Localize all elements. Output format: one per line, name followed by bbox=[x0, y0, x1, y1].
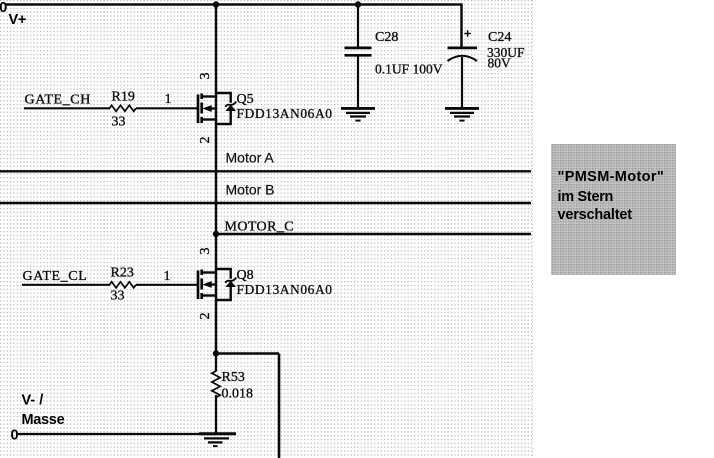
net label GATE_CL bbox=[23, 269, 88, 284]
svg-text:MOTOR_C: MOTOR_C bbox=[225, 219, 294, 234]
svg-text:Motor B: Motor B bbox=[226, 182, 275, 198]
label R53 bbox=[222, 370, 245, 385]
pin 2 label (Q8 source) bbox=[198, 313, 213, 320]
wire: junction to right branch bbox=[216, 352, 279, 354]
svg-text:Q8: Q8 bbox=[237, 268, 254, 283]
transistor Q5 bbox=[198, 93, 236, 124]
value 33 (R19) bbox=[112, 115, 126, 130]
wire: R23 to Q8 gate bbox=[136, 284, 197, 286]
svg-text:R23: R23 bbox=[111, 266, 134, 281]
ground (below C28) bbox=[341, 108, 375, 120]
transistor Q8 bbox=[198, 269, 236, 300]
svg-text:FDD13AN06A0: FDD13AN06A0 bbox=[237, 282, 333, 297]
svg-text:3: 3 bbox=[198, 73, 213, 80]
wire: GATE_CL to R23 bbox=[22, 284, 110, 286]
svg-text:V- /: V- / bbox=[22, 393, 44, 409]
svg-text:R53: R53 bbox=[222, 370, 245, 385]
refdes C28 bbox=[375, 30, 398, 45]
ground (below C24) bbox=[445, 108, 479, 120]
plus mark (C24 polarity) bbox=[464, 30, 471, 37]
capacitor C24 (polarized) bbox=[448, 3, 478, 107]
svg-text:V+: V+ bbox=[9, 12, 27, 28]
net label V- / bbox=[22, 393, 44, 409]
svg-text:3: 3 bbox=[198, 248, 213, 255]
refdes Q5 bbox=[237, 92, 254, 107]
svg-text:GATE_CL: GATE_CL bbox=[23, 269, 88, 284]
svg-text:C28: C28 bbox=[375, 30, 398, 45]
svg-text:0.018: 0.018 bbox=[222, 387, 254, 402]
resistor R19 body bbox=[110, 105, 137, 111]
svg-text:Motor A: Motor A bbox=[226, 150, 275, 166]
label R23 bbox=[111, 266, 134, 281]
note box: PMSM-Motor bbox=[551, 144, 676, 275]
svg-text:2: 2 bbox=[198, 137, 213, 144]
svg-text:0.1UF 100V: 0.1UF 100V bbox=[375, 62, 443, 77]
port 0 (V- / Masse, bottom left) bbox=[11, 428, 19, 444]
refdes Q8 bbox=[237, 268, 254, 283]
svg-text:33: 33 bbox=[111, 289, 125, 304]
svg-text:80V: 80V bbox=[488, 55, 512, 70]
wire: GATE_CH to R19 bbox=[24, 107, 110, 109]
note text line 2 bbox=[558, 189, 614, 205]
svg-text:0: 0 bbox=[11, 428, 19, 444]
wire Motor A bbox=[0, 170, 531, 172]
svg-text:0: 0 bbox=[0, 0, 7, 16]
value 80V (C24) bbox=[488, 55, 512, 70]
port 0 (V+ supply, top left) bbox=[0, 0, 7, 16]
note text line 3 bbox=[558, 207, 633, 223]
wire: R53 to ground bbox=[215, 395, 217, 434]
net label MOTOR_C bbox=[225, 219, 294, 234]
wire: junction to R53 bbox=[215, 354, 217, 372]
wire: right branch vertical to bottom edge bbox=[278, 354, 281, 458]
junction: MOTOR_C / Q5 source / Q8 drain bbox=[213, 231, 219, 237]
net label GATE_CH bbox=[25, 93, 91, 108]
svg-text:Masse: Masse bbox=[22, 412, 65, 428]
value FDD13AN06A0 (Q5) bbox=[237, 106, 333, 121]
refdes C24 bbox=[488, 30, 511, 45]
pin 3 label (Q8 drain) bbox=[198, 248, 213, 255]
pin 1 label (Q8 gate) bbox=[164, 269, 171, 284]
capacitor C28 bbox=[345, 5, 372, 108]
net label Motor A bbox=[226, 150, 275, 166]
svg-text:C24: C24 bbox=[488, 30, 511, 45]
svg-text:im Stern: im Stern bbox=[558, 189, 614, 205]
label R19 bbox=[112, 90, 135, 105]
junction: Q8 source / R53 / output stub bbox=[213, 350, 219, 356]
svg-text:1: 1 bbox=[164, 269, 171, 284]
junction: V+ rail / C28 bbox=[355, 1, 361, 7]
wire: R19 to Q5 gate bbox=[136, 107, 197, 109]
pin 2 label (Q5 source) bbox=[198, 137, 213, 144]
net label Masse bbox=[22, 412, 65, 428]
wire: port 0 to ground bbox=[18, 433, 216, 435]
net label Motor B bbox=[226, 182, 275, 198]
svg-text:verschaltet: verschaltet bbox=[558, 207, 633, 223]
svg-text:Q5: Q5 bbox=[237, 92, 254, 107]
net label V+ bbox=[9, 12, 27, 28]
pin 3 label (Q5 drain) bbox=[198, 73, 213, 80]
wire: MOTOR_C junction to Q8 and Q8 source down bbox=[215, 234, 217, 354]
svg-text:R19: R19 bbox=[112, 90, 135, 105]
svg-text:2: 2 bbox=[198, 313, 213, 320]
pin 1 label (Q5 gate) bbox=[165, 92, 172, 107]
wire Motor B bbox=[0, 202, 531, 204]
svg-text:33: 33 bbox=[112, 115, 126, 130]
svg-text:"PMSM-Motor": "PMSM-Motor" bbox=[558, 169, 665, 185]
resistor R23 body bbox=[110, 282, 137, 288]
value 0.1UF 100V (C28) bbox=[375, 62, 443, 77]
wire MOTOR_C bbox=[216, 233, 531, 235]
value 33 (R23) bbox=[111, 289, 125, 304]
value 330UF (C24) bbox=[487, 45, 525, 60]
value FDD13AN06A0 (Q8) bbox=[237, 282, 333, 297]
resistor R53 body bbox=[212, 371, 220, 397]
ground (bottom, V-/Masse) bbox=[199, 434, 236, 446]
wire V+ rail bbox=[6, 3, 462, 6]
svg-text:GATE_CH: GATE_CH bbox=[25, 93, 91, 108]
note text line 1 bbox=[558, 169, 665, 185]
wire: Q5 drain vertical (V+ to Q5, through symbol to MOTOR_C) bbox=[215, 5, 217, 235]
junction: V+ rail / Q5 drain bbox=[213, 1, 219, 7]
value 0.018 (R53) bbox=[222, 387, 254, 402]
svg-text:FDD13AN06A0: FDD13AN06A0 bbox=[237, 106, 333, 121]
svg-text:1: 1 bbox=[165, 92, 172, 107]
